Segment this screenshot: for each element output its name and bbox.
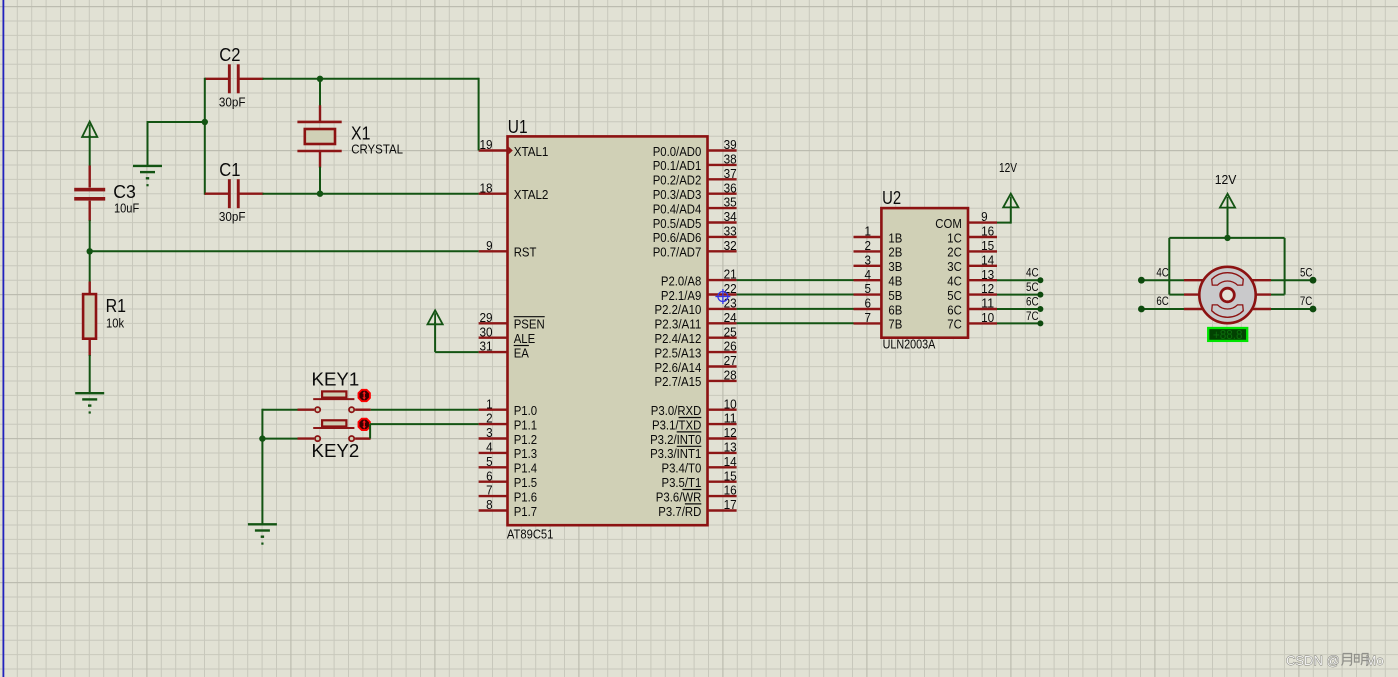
svg-text:P2.4/A12: P2.4/A12	[655, 331, 702, 346]
svg-text:13: 13	[724, 441, 737, 455]
svg-text:25: 25	[724, 325, 737, 339]
svg-text:2B: 2B	[888, 245, 902, 260]
svg-text:29: 29	[480, 311, 493, 325]
svg-text:6: 6	[486, 469, 493, 483]
svg-text:EA: EA	[514, 345, 530, 360]
svg-text:U1: U1	[508, 116, 528, 137]
svg-text:15: 15	[981, 239, 994, 253]
svg-text:1: 1	[865, 225, 872, 239]
svg-text:P3.3/INT1: P3.3/INT1	[650, 446, 701, 461]
svg-text:P0.6/AD6: P0.6/AD6	[653, 230, 702, 245]
svg-text:5C: 5C	[1026, 282, 1039, 294]
svg-text:X1: X1	[351, 122, 370, 143]
svg-text:P1.0: P1.0	[514, 403, 537, 418]
svg-text:12: 12	[724, 426, 737, 440]
svg-text:7C: 7C	[947, 317, 962, 332]
svg-text:3: 3	[865, 253, 872, 267]
svg-text:13: 13	[981, 268, 994, 282]
svg-text:12V: 12V	[999, 161, 1018, 175]
svg-text:6B: 6B	[888, 302, 902, 317]
svg-text:3B: 3B	[888, 259, 902, 274]
svg-text:4C: 4C	[947, 274, 962, 289]
svg-text:P1.4: P1.4	[514, 461, 537, 476]
svg-text:P2.7/A15: P2.7/A15	[655, 374, 702, 389]
svg-text:31: 31	[480, 340, 493, 354]
svg-text:P0.0/AD0: P0.0/AD0	[653, 144, 702, 159]
svg-text:7C: 7C	[1026, 311, 1039, 323]
svg-text:34: 34	[724, 210, 737, 224]
svg-text:XTAL1: XTAL1	[514, 144, 549, 159]
svg-text:P0.4/AD4: P0.4/AD4	[653, 201, 702, 216]
svg-text:P3.2/INT0: P3.2/INT0	[650, 432, 701, 447]
svg-text:P3.4/T0: P3.4/T0	[662, 461, 702, 476]
svg-text:5: 5	[486, 455, 493, 469]
svg-text:P1.1: P1.1	[514, 417, 537, 432]
svg-text:P2.3/A11: P2.3/A11	[655, 317, 702, 332]
svg-text:PSEN: PSEN	[514, 317, 545, 332]
svg-text:39: 39	[724, 138, 737, 152]
svg-text:ALE: ALE	[514, 331, 536, 346]
svg-text:2: 2	[486, 412, 493, 426]
svg-text:3C: 3C	[947, 259, 962, 274]
svg-text:36: 36	[724, 181, 737, 195]
svg-text:10k: 10k	[106, 315, 125, 330]
svg-text:5C: 5C	[1300, 268, 1312, 280]
svg-text:30pF: 30pF	[219, 94, 246, 109]
svg-text:COM: COM	[935, 216, 962, 231]
svg-text:U2: U2	[882, 187, 901, 208]
svg-text:21: 21	[724, 268, 737, 282]
svg-text:P3.0/RXD: P3.0/RXD	[651, 403, 702, 418]
svg-text:P1.2: P1.2	[514, 432, 537, 447]
svg-text:8: 8	[486, 498, 493, 512]
svg-text:17: 17	[724, 498, 737, 512]
svg-text:1C: 1C	[947, 230, 962, 245]
svg-text:ULN2003A: ULN2003A	[883, 336, 936, 351]
svg-text:7: 7	[865, 311, 872, 325]
svg-text:P2.6/A14: P2.6/A14	[655, 360, 702, 375]
svg-text:10: 10	[724, 397, 737, 411]
svg-text:C2: C2	[219, 44, 240, 65]
svg-text:2: 2	[865, 239, 872, 253]
svg-text:16: 16	[981, 225, 994, 239]
svg-text:37: 37	[724, 167, 737, 181]
svg-text:KEY1: KEY1	[312, 368, 360, 389]
svg-text:CSDN @: CSDN @	[1286, 653, 1340, 668]
svg-text:+88.8: +88.8	[1213, 328, 1243, 342]
svg-text:26: 26	[724, 340, 737, 354]
svg-text:6C: 6C	[1026, 296, 1039, 308]
svg-text:P3.6/WR: P3.6/WR	[656, 489, 702, 504]
svg-text:P1.6: P1.6	[514, 489, 537, 504]
svg-text:RST: RST	[514, 245, 537, 260]
svg-text:23: 23	[724, 297, 737, 311]
svg-text:4C: 4C	[1156, 268, 1168, 280]
svg-text:5: 5	[865, 282, 872, 296]
svg-text:P0.1/AD1: P0.1/AD1	[653, 158, 702, 173]
svg-text:14: 14	[724, 455, 737, 469]
svg-text:19: 19	[480, 138, 493, 152]
svg-text:22: 22	[724, 282, 737, 296]
svg-text:KEY2: KEY2	[312, 440, 360, 461]
svg-text:P2.2/A10: P2.2/A10	[655, 302, 702, 317]
svg-text:30pF: 30pF	[219, 209, 246, 224]
svg-text:11: 11	[724, 412, 737, 426]
svg-text:6C: 6C	[947, 302, 962, 317]
svg-text:9: 9	[486, 239, 493, 253]
svg-text:XTAL2: XTAL2	[514, 187, 549, 202]
svg-text:P1.7: P1.7	[514, 504, 537, 519]
svg-text:18: 18	[480, 181, 493, 195]
svg-text:27: 27	[724, 354, 737, 368]
svg-text:P0.5/AD5: P0.5/AD5	[653, 216, 702, 231]
svg-text:AT89C51: AT89C51	[507, 526, 554, 541]
svg-text:P1.5: P1.5	[514, 475, 537, 490]
svg-text:P0.3/AD3: P0.3/AD3	[653, 187, 702, 202]
svg-text:P1.3: P1.3	[514, 446, 537, 461]
svg-text:33: 33	[724, 225, 737, 239]
svg-text:12V: 12V	[1215, 173, 1237, 187]
svg-text:32: 32	[724, 239, 737, 253]
svg-text:P3.1/TXD: P3.1/TXD	[652, 417, 701, 432]
svg-text:30: 30	[480, 325, 493, 339]
svg-text:10: 10	[981, 311, 994, 325]
svg-text:CRYSTAL: CRYSTAL	[351, 142, 403, 157]
svg-text:7: 7	[486, 484, 493, 498]
svg-text:11: 11	[981, 297, 994, 311]
svg-text:C3: C3	[113, 181, 136, 202]
svg-text:2C: 2C	[947, 245, 962, 260]
svg-text:6: 6	[865, 297, 872, 311]
svg-text:5B: 5B	[888, 288, 902, 303]
svg-text:1B: 1B	[888, 230, 902, 245]
svg-text:12: 12	[981, 282, 994, 296]
svg-text:P2.0/A8: P2.0/A8	[661, 273, 701, 288]
svg-text:P2.5/A13: P2.5/A13	[655, 345, 702, 360]
svg-text:1: 1	[486, 397, 493, 411]
svg-text:5C: 5C	[947, 288, 962, 303]
svg-text:28: 28	[724, 369, 737, 383]
svg-text:16: 16	[724, 484, 737, 498]
svg-text:6C: 6C	[1156, 296, 1168, 308]
svg-text:7B: 7B	[888, 317, 902, 332]
svg-text:P0.2/AD2: P0.2/AD2	[653, 173, 702, 188]
svg-text:14: 14	[981, 253, 994, 267]
svg-text:P0.7/AD7: P0.7/AD7	[653, 245, 702, 260]
svg-text:35: 35	[724, 196, 737, 210]
svg-text:R1: R1	[106, 295, 126, 316]
svg-text:3: 3	[486, 426, 493, 440]
svg-text:4C: 4C	[1026, 268, 1039, 280]
svg-text:7C: 7C	[1300, 296, 1312, 308]
svg-text:4: 4	[486, 441, 493, 455]
svg-text:C1: C1	[219, 159, 240, 180]
svg-text:9: 9	[981, 210, 988, 224]
svg-text:P2.1/A9: P2.1/A9	[661, 288, 701, 303]
svg-text:4B: 4B	[888, 274, 902, 289]
svg-text:4: 4	[865, 268, 872, 282]
svg-text:P3.5/T1: P3.5/T1	[662, 475, 702, 490]
svg-text:10uF: 10uF	[114, 200, 139, 215]
svg-text:15: 15	[724, 469, 737, 483]
svg-text:38: 38	[724, 153, 737, 167]
svg-text:24: 24	[724, 311, 737, 325]
svg-text:P3.7/RD: P3.7/RD	[658, 504, 701, 519]
